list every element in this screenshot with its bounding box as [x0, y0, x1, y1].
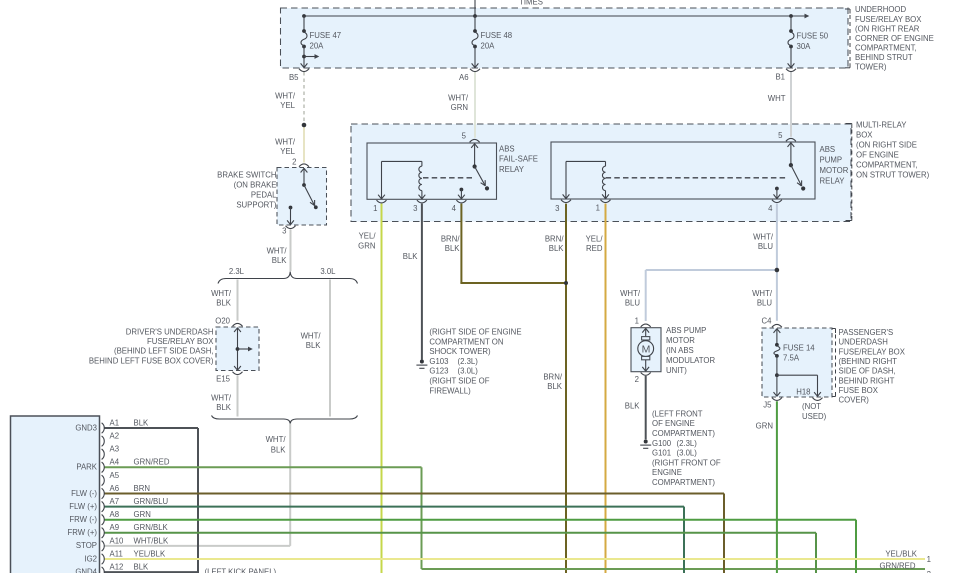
svg-text:YEL/BLK: YEL/BLK [885, 550, 917, 559]
svg-text:4: 4 [452, 204, 457, 213]
svg-text:DRIVER'S UNDERDASH: DRIVER'S UNDERDASH [126, 328, 214, 337]
svg-text:(LEFT KICK PANEL): (LEFT KICK PANEL) [205, 568, 277, 573]
svg-text:BLK: BLK [272, 256, 288, 265]
svg-text:A9: A9 [110, 523, 120, 532]
svg-text:B5: B5 [289, 73, 299, 82]
svg-text:BLK: BLK [625, 401, 641, 410]
svg-text:YEL: YEL [280, 101, 295, 110]
svg-text:A5: A5 [110, 471, 120, 480]
svg-text:BLU: BLU [625, 299, 641, 308]
svg-text:BLK: BLK [216, 299, 232, 308]
svg-text:3: 3 [555, 204, 559, 213]
svg-text:FRW (+): FRW (+) [67, 528, 97, 537]
svg-text:BLK: BLK [306, 341, 322, 350]
svg-text:MOTOR: MOTOR [820, 166, 849, 175]
svg-text:(BEHIND LEFT SIDE DASH,: (BEHIND LEFT SIDE DASH, [114, 347, 214, 356]
svg-text:1: 1 [635, 317, 639, 326]
svg-text:PUMP: PUMP [820, 155, 843, 164]
svg-text:RELAY: RELAY [499, 165, 525, 174]
svg-text:RELAY: RELAY [820, 176, 846, 185]
svg-text:OF ENGINE: OF ENGINE [652, 419, 695, 428]
svg-text:PEDAL: PEDAL [251, 191, 277, 200]
svg-text:5: 5 [778, 131, 783, 140]
svg-text:1: 1 [596, 204, 600, 213]
svg-text:H18: H18 [796, 388, 810, 397]
svg-text:YEL/BLK: YEL/BLK [134, 549, 166, 558]
svg-text:MODULATOR: MODULATOR [666, 356, 715, 365]
svg-text:2.3L: 2.3L [229, 267, 245, 276]
svg-text:GRN/RED: GRN/RED [134, 458, 170, 467]
svg-text:(ON RIGHT SIDE: (ON RIGHT SIDE [856, 141, 917, 150]
svg-text:RED: RED [586, 244, 603, 253]
svg-text:BLK: BLK [271, 446, 287, 455]
svg-text:WHT/: WHT/ [275, 91, 296, 100]
svg-text:2: 2 [292, 157, 296, 166]
svg-text:WHT/: WHT/ [448, 94, 469, 103]
svg-text:BEHIND STRUT: BEHIND STRUT [855, 53, 913, 62]
svg-text:(RIGHT SIDE OF: (RIGHT SIDE OF [429, 377, 489, 386]
svg-text:(3.0L): (3.0L) [677, 449, 698, 458]
svg-text:WHT/BLK: WHT/BLK [134, 536, 169, 545]
svg-text:WHT/: WHT/ [275, 137, 296, 146]
svg-text:FUSE 47: FUSE 47 [310, 31, 342, 40]
svg-text:A12: A12 [110, 563, 124, 572]
svg-text:SUPPORT): SUPPORT) [236, 201, 277, 210]
svg-text:FIREWALL): FIREWALL) [429, 386, 471, 395]
svg-text:(RIGHT FRONT OF: (RIGHT FRONT OF [652, 458, 721, 467]
svg-text:BLK: BLK [445, 244, 461, 253]
svg-text:ABS PUMP: ABS PUMP [666, 326, 706, 335]
svg-text:A3: A3 [110, 445, 120, 454]
svg-text:A2: A2 [110, 432, 120, 441]
svg-text:BLU: BLU [758, 242, 774, 251]
svg-text:GRN: GRN [451, 103, 468, 112]
svg-text:3.0L: 3.0L [320, 267, 336, 276]
svg-text:WHT: WHT [768, 94, 786, 103]
svg-text:FLW (-): FLW (-) [71, 489, 97, 498]
svg-text:(RIGHT SIDE OF ENGINE: (RIGHT SIDE OF ENGINE [429, 328, 521, 337]
svg-text:BEHIND RIGHT: BEHIND RIGHT [839, 376, 895, 385]
svg-text:G100: G100 [652, 439, 672, 448]
svg-text:SIDE OF DASH,: SIDE OF DASH, [839, 367, 896, 376]
svg-text:BLK: BLK [134, 563, 150, 572]
svg-text:3: 3 [413, 204, 417, 213]
svg-text:BOX: BOX [856, 131, 873, 140]
svg-text:GND3: GND3 [75, 423, 97, 432]
svg-text:O20: O20 [215, 317, 230, 326]
svg-text:5: 5 [462, 132, 467, 141]
svg-text:FAIL-SAFE: FAIL-SAFE [499, 155, 538, 164]
svg-text:A10: A10 [110, 536, 125, 545]
svg-text:WHT/: WHT/ [620, 289, 641, 298]
svg-text:BRN/: BRN/ [441, 235, 460, 244]
svg-text:BEHIND LEFT FUSE BOX COVER): BEHIND LEFT FUSE BOX COVER) [89, 356, 214, 365]
svg-text:FUSE/RELAY BOX: FUSE/RELAY BOX [147, 337, 214, 346]
svg-text:(LEFT FRONT: (LEFT FRONT [652, 409, 703, 418]
svg-text:ABS: ABS [499, 145, 515, 154]
svg-text:GRN: GRN [756, 421, 773, 430]
svg-text:1: 1 [927, 555, 931, 564]
svg-text:FRW (-): FRW (-) [69, 515, 97, 524]
svg-text:ENGINE: ENGINE [652, 468, 682, 477]
svg-text:ON STRUT TOWER): ON STRUT TOWER) [856, 171, 930, 180]
svg-text:FUSE 14: FUSE 14 [783, 344, 815, 353]
svg-text:PARK: PARK [76, 463, 97, 472]
svg-text:COMPARTMENT): COMPARTMENT) [652, 429, 715, 438]
svg-text:GRN/BLK: GRN/BLK [134, 523, 169, 532]
svg-text:BRN/: BRN/ [543, 373, 562, 382]
svg-text:IG2: IG2 [84, 554, 97, 563]
svg-text:GRN: GRN [134, 510, 151, 519]
svg-text:FUSE 48: FUSE 48 [481, 31, 513, 40]
svg-text:30A: 30A [797, 42, 812, 51]
svg-text:FLW (+): FLW (+) [69, 502, 97, 511]
svg-text:1: 1 [373, 204, 377, 213]
svg-text:BLK: BLK [403, 252, 419, 261]
svg-text:(NOT: (NOT [802, 402, 821, 411]
svg-text:A7: A7 [110, 497, 120, 506]
svg-text:(2.3L): (2.3L) [677, 439, 698, 448]
svg-text:YEL/: YEL/ [359, 232, 377, 241]
svg-text:COMPARTMENT): COMPARTMENT) [652, 478, 715, 487]
svg-text:A4: A4 [110, 458, 120, 467]
svg-text:GRN/RED: GRN/RED [880, 562, 916, 571]
svg-text:UNDERDASH: UNDERDASH [839, 338, 888, 347]
svg-text:UNIT): UNIT) [666, 366, 687, 375]
svg-text:PASSENGER'S: PASSENGER'S [839, 328, 894, 337]
svg-text:A1: A1 [110, 418, 120, 427]
svg-text:E15: E15 [216, 375, 231, 384]
svg-text:YEL: YEL [280, 147, 295, 156]
svg-text:WHT/: WHT/ [301, 332, 322, 341]
svg-text:COMPARTMENT,: COMPARTMENT, [855, 44, 917, 53]
svg-text:7.5A: 7.5A [783, 354, 800, 363]
svg-text:COVER): COVER) [839, 396, 870, 405]
svg-text:(BEHIND RIGHT: (BEHIND RIGHT [839, 357, 898, 366]
svg-text:(ON RIGHT REAR: (ON RIGHT REAR [855, 24, 920, 33]
svg-text:B1: B1 [775, 73, 785, 82]
svg-text:WHT/: WHT/ [267, 247, 288, 256]
svg-text:COMPARTMENT ON: COMPARTMENT ON [429, 337, 503, 346]
svg-text:(3.0L): (3.0L) [458, 367, 479, 376]
svg-text:GRN/BLU: GRN/BLU [134, 497, 169, 506]
svg-text:FUSE 50: FUSE 50 [797, 32, 829, 41]
svg-text:A6: A6 [110, 484, 120, 493]
svg-text:BLU: BLU [757, 299, 773, 308]
svg-text:WHT/: WHT/ [211, 394, 232, 403]
svg-text:TIMES: TIMES [519, 0, 543, 7]
svg-text:A6: A6 [459, 73, 469, 82]
svg-text:G101: G101 [652, 449, 671, 458]
svg-text:GND4: GND4 [75, 567, 97, 573]
svg-text:MULTI-RELAY: MULTI-RELAY [856, 121, 907, 130]
svg-text:J5: J5 [763, 401, 772, 410]
svg-text:GRN: GRN [358, 241, 375, 250]
svg-text:(IN ABS: (IN ABS [666, 346, 694, 355]
svg-text:YEL/: YEL/ [586, 235, 604, 244]
svg-text:STOP: STOP [76, 541, 97, 550]
svg-text:WHT/: WHT/ [266, 435, 287, 444]
svg-text:COMPARTMENT,: COMPARTMENT, [856, 161, 918, 170]
svg-text:WHT/: WHT/ [753, 233, 774, 242]
svg-text:3: 3 [282, 227, 286, 236]
svg-text:G123: G123 [429, 367, 448, 376]
svg-text:2: 2 [635, 375, 639, 384]
svg-text:BLK: BLK [549, 244, 565, 253]
svg-text:BLK: BLK [216, 403, 232, 412]
svg-text:FUSE/RELAY BOX: FUSE/RELAY BOX [855, 15, 922, 24]
svg-text:20A: 20A [310, 42, 325, 51]
svg-text:WHT/: WHT/ [752, 289, 773, 298]
svg-text:UNDERHOOD: UNDERHOOD [855, 5, 906, 14]
svg-text:BLK: BLK [547, 382, 563, 391]
svg-text:BRAKE SWITCH: BRAKE SWITCH [217, 171, 276, 180]
svg-text:BLK: BLK [134, 418, 150, 427]
svg-text:A11: A11 [110, 549, 123, 558]
svg-text:M: M [642, 343, 651, 355]
svg-text:ABS: ABS [820, 145, 836, 154]
svg-text:20A: 20A [481, 42, 496, 51]
svg-text:WHT/: WHT/ [211, 289, 232, 298]
svg-text:C4: C4 [762, 317, 773, 326]
svg-text:CORNER OF ENGINE: CORNER OF ENGINE [855, 34, 934, 43]
svg-text:SHOCK TOWER): SHOCK TOWER) [429, 347, 491, 356]
svg-text:A8: A8 [110, 510, 120, 519]
svg-text:OF ENGINE: OF ENGINE [856, 151, 899, 160]
svg-text:(2.3L): (2.3L) [458, 357, 479, 366]
svg-text:FUSE/RELAY BOX: FUSE/RELAY BOX [839, 347, 906, 356]
svg-text:MOTOR: MOTOR [666, 336, 695, 345]
svg-text:4: 4 [768, 204, 773, 213]
svg-text:USED): USED) [802, 412, 827, 421]
svg-text:TOWER): TOWER) [855, 63, 887, 72]
svg-text:BRN: BRN [134, 484, 150, 493]
svg-text:BRN/: BRN/ [545, 235, 564, 244]
svg-text:G103: G103 [429, 357, 448, 366]
svg-text:FUSE BOX: FUSE BOX [839, 386, 879, 395]
svg-text:(ON BRAKE: (ON BRAKE [234, 181, 277, 190]
